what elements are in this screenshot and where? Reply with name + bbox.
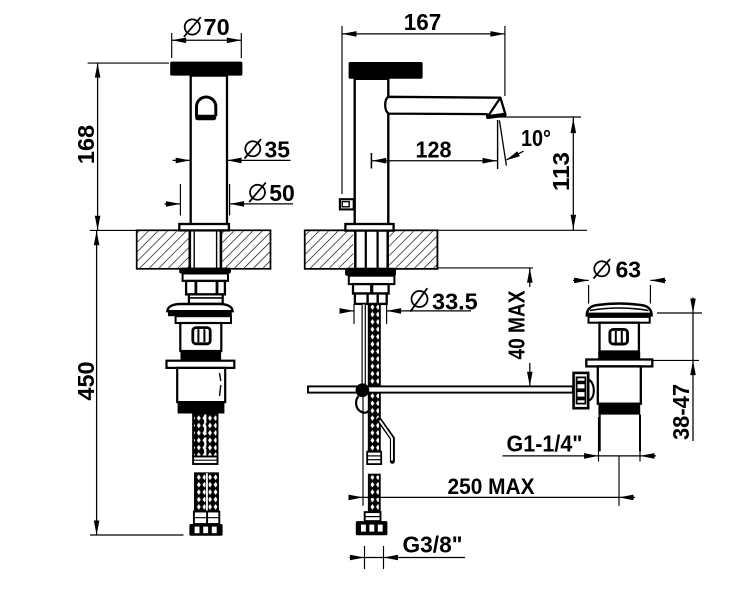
front view: quick-mount dome cap (167, 304, 232, 316)
side view: counter slab middle (305, 230, 438, 268)
drain: threaded band (598, 403, 640, 414)
front view: black band bottom (178, 402, 225, 413)
svg-text:10°: 10° (521, 125, 551, 151)
svg-text:113: 113 (548, 152, 574, 191)
front view: braided hose upper (193, 414, 217, 457)
drain: dark band (598, 352, 640, 360)
front view: logo arch on body (195, 97, 216, 120)
side view: hex nut (353, 284, 389, 293)
dimension 250 MAX (349, 397, 636, 506)
front view: locknut under counter (179, 268, 231, 274)
side view: bent lower rod (379, 420, 392, 462)
dimension G3/8 (350, 532, 466, 570)
front view: faucet body tube (191, 76, 227, 225)
front view: hose crimp band (193, 457, 217, 465)
front view: shank lines through counter (190, 230, 221, 268)
dimension 63 diameter (573, 256, 666, 303)
front view: handle cap black (170, 62, 242, 76)
drain: tailpiece (600, 415, 640, 452)
drain: lower body (598, 366, 641, 403)
side view: vertical pop-up rod (362, 304, 365, 386)
side view: ball joint (356, 383, 370, 397)
front view: washer ring (183, 274, 228, 281)
dimension 10 degree angle (498, 120, 551, 169)
side view: locknut (345, 268, 396, 276)
front view: hex nut (186, 281, 225, 295)
front view: dark band (181, 351, 222, 361)
side view: hose end nut G3/8 (356, 521, 388, 535)
svg-text:128: 128 (416, 137, 452, 163)
dimension 128 spout reach (371, 137, 497, 169)
front view: wide flange (167, 361, 235, 368)
dimension 168 height (73, 63, 169, 230)
side view: handle bar black (349, 62, 423, 79)
svg-text:63: 63 (616, 256, 642, 282)
svg-text:450: 450 (73, 361, 99, 400)
front view: body with window (180, 323, 221, 351)
svg-text:38-47: 38-47 (668, 384, 694, 440)
front view: hose end nuts (189, 524, 222, 536)
svg-text:40 MAX: 40 MAX (504, 290, 530, 360)
side view: spout (385, 97, 505, 118)
svg-text:33.5: 33.5 (432, 289, 478, 315)
svg-text:50: 50 (269, 180, 295, 206)
drain centerline extension (618, 456, 620, 506)
drain: upper body with window (600, 323, 639, 352)
side view: washer ring (349, 276, 395, 284)
dimension 35 diameter (173, 136, 291, 163)
svg-text:G1-1/4": G1-1/4" (507, 431, 583, 457)
front view: base flange (179, 224, 229, 230)
svg-text:167: 167 (404, 9, 442, 35)
svg-text:168: 168 (73, 125, 99, 164)
svg-text:70: 70 (204, 14, 230, 40)
front view: counter slab left (137, 230, 271, 268)
drain: ribbed adjuster knob (574, 373, 589, 408)
dimension G1-1/4 (503, 417, 657, 462)
dimension 450 height (73, 231, 183, 535)
side view: base flange (345, 224, 393, 231)
dimension 33.5 diameter (340, 288, 478, 324)
dimension 167 width (342, 9, 505, 194)
drain: pop-up cap dome (587, 304, 652, 317)
drain: flange (586, 360, 652, 367)
svg-text:G3/8": G3/8" (403, 532, 463, 558)
front view: shank cylinder (189, 294, 223, 303)
side view: horizontal pop-up rod (308, 386, 573, 392)
front view: ring under dome (176, 316, 231, 323)
svg-text:35: 35 (265, 136, 291, 162)
dimension 38-47 (652, 298, 703, 442)
front view: hose ferrules (194, 512, 219, 525)
side view: hose ferrule (365, 512, 381, 521)
dimension 50 diameter (165, 180, 295, 216)
svg-text:250 MAX: 250 MAX (448, 474, 535, 499)
side view: faucet body (355, 79, 389, 224)
dimension 70 diameter (172, 14, 242, 58)
dimension 40 MAX (437, 268, 533, 387)
side view: lower nut (355, 294, 387, 304)
side view: hose crimp band (367, 452, 381, 464)
drain: ring under cap (589, 317, 650, 323)
side view: rod hook below ball (356, 396, 369, 413)
front view: braided hose pair lower (195, 473, 218, 511)
dimension 113 height (437, 117, 587, 230)
side view: shank lines through counter (355, 230, 387, 267)
side view: braided hose (369, 304, 380, 452)
drain: ball socket arc (588, 379, 594, 401)
side view: braided hose lower (369, 475, 380, 512)
side view: rod outlet box on body (340, 199, 354, 209)
front view: lower cylinder (177, 368, 225, 402)
